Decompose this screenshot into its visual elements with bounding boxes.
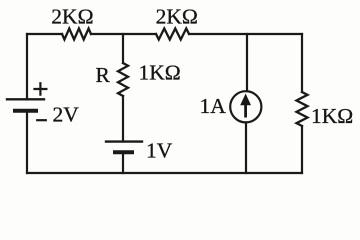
wire current-source upper <box>246 34 248 91</box>
wire current-source lower <box>245 123 247 174</box>
svg-text:2KΩ: 2KΩ <box>156 5 198 29</box>
battery V2 1V short plate <box>115 150 132 154</box>
resistor R-top-left 2K <box>62 29 91 40</box>
svg-text:2KΩ: 2KΩ <box>51 5 93 29</box>
wire right lower <box>301 126 303 173</box>
svg-text:1V: 1V <box>146 138 173 162</box>
wire top-left segment <box>27 33 62 35</box>
battery V1 2V long plate <box>7 98 44 100</box>
current source I1 circle <box>230 91 261 122</box>
wire left upper <box>26 34 28 98</box>
battery V2 1V long plate <box>106 140 142 142</box>
wire mid upper <box>122 34 124 63</box>
battery V1 2V short plate <box>15 109 36 113</box>
wire top-middle segment <box>91 33 156 35</box>
wire top-right segment <box>189 33 302 35</box>
svg-text:1A: 1A <box>200 94 227 118</box>
minus sign of V1 <box>37 119 46 121</box>
svg-text:R: R <box>96 63 111 87</box>
resistor R-top-right 2K <box>156 29 189 40</box>
svg-text:1KΩ: 1KΩ <box>139 61 181 85</box>
svg-text:2V: 2V <box>53 103 80 127</box>
wire mid lower <box>122 154 124 173</box>
current source I1 arrow <box>240 94 251 118</box>
svg-text:1KΩ: 1KΩ <box>311 104 353 128</box>
wire right upper <box>301 34 303 92</box>
plus sign of V1 <box>35 83 47 94</box>
resistor R mid 1K <box>118 63 128 96</box>
wire bottom <box>27 172 302 174</box>
wire left lower <box>26 113 28 173</box>
resistor R-right 1K <box>297 92 308 126</box>
wire mid between R and battery <box>122 96 124 140</box>
